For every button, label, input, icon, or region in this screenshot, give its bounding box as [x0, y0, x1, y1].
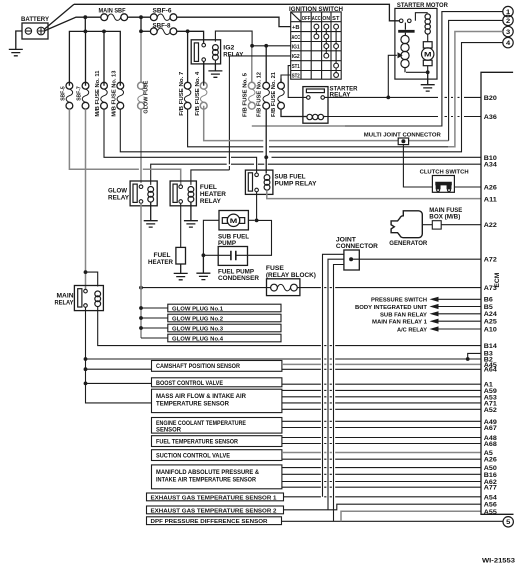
multi joint connector — [398, 138, 408, 145]
ground (fuel heater) — [174, 264, 188, 280]
svg-text:+B: +B — [292, 25, 300, 31]
ignition switch contacts — [314, 24, 339, 77]
svg-text:M/B FUSE No. 11: M/B FUSE No. 11 — [95, 71, 101, 117]
ground (IG2 relay) — [208, 64, 222, 77]
wire SFPR contact to sub fuel pump — [256, 192, 258, 219]
svg-text:3: 3 — [506, 29, 511, 36]
svg-text:A34: A34 — [484, 162, 498, 169]
wire condenser branch — [248, 220, 272, 255]
fuse F/B FUSE No. 21 — [278, 79, 285, 110]
wire generator to main fuse box — [422, 224, 432, 226]
svg-text:ST: ST — [332, 16, 339, 22]
svg-text:A77: A77 — [484, 485, 498, 492]
wire power to boost valve — [86, 382, 152, 384]
node F/B fuse No.7 feed — [186, 29, 190, 33]
fuse F/B FUSE No. 12 — [263, 47, 270, 109]
wire clutch switch to ECM A26 — [454, 186, 481, 188]
fuse F/B FUSE No. 7 — [184, 31, 191, 109]
resistor fuel heater — [176, 203, 186, 264]
svg-text:HEATER: HEATER — [148, 259, 174, 266]
svg-text:A54: A54 — [484, 494, 498, 501]
svg-text:INTAKE AIR TEMPERATURE SENSOR: INTAKE AIR TEMPERATURE SENSOR — [156, 478, 257, 484]
svg-text:GLOW FUSE: GLOW FUSE — [143, 80, 149, 113]
node glow plug 3 — [139, 326, 143, 330]
wire IG1 row feed — [252, 45, 291, 47]
svg-text:2: 2 — [506, 18, 511, 25]
svg-text:RELAY: RELAY — [200, 198, 222, 205]
ground (starter motor) — [421, 72, 435, 91]
svg-text:4: 4 — [506, 40, 511, 47]
exhaust gas temperature sensor 2 — [147, 506, 284, 514]
svg-text:CLUTCH SWITCH: CLUTCH SWITCH — [420, 170, 469, 176]
node B10 F/B12 — [264, 155, 268, 159]
wire to glow plug 2 — [141, 317, 168, 319]
wire battery to ground — [16, 31, 22, 49]
wire to glow plug 4 — [141, 337, 168, 339]
wire MAF to ECM A52 — [282, 408, 481, 410]
wire FTS to ECM A68 — [282, 443, 481, 445]
svg-text:A26: A26 — [484, 184, 498, 191]
wire camshaft to ECM A64 — [282, 368, 481, 370]
manifold absolute pressure sensor — [152, 465, 282, 489]
wire F/B5 to circle 1 — [252, 125, 345, 127]
svg-text:F/B FUSE No. 21: F/B FUSE No. 21 — [271, 72, 277, 117]
svg-text:IG2: IG2 — [292, 54, 300, 60]
node sub fuel pump feed — [255, 219, 259, 223]
ground (sub fuel pump) — [196, 255, 210, 279]
svg-text:CONDENSER: CONDENSER — [218, 275, 260, 282]
node fuse row a — [84, 30, 88, 34]
svg-text:SENSOR: SENSOR — [156, 428, 182, 434]
svg-text:F/B FUSE No. 12: F/B FUSE No. 12 — [256, 72, 262, 117]
svg-text:RELAY: RELAY — [108, 194, 130, 201]
svg-text:A56: A56 — [484, 502, 498, 509]
svg-text:DPF PRESSURE DIFFERENCE SENSOR: DPF PRESSURE DIFFERENCE SENSOR — [151, 519, 269, 525]
node starter motor ground — [426, 70, 430, 74]
ignition switch table — [291, 12, 342, 79]
svg-text:EXHAUST GAS TEMPERATURE SENSOR: EXHAUST GAS TEMPERATURE SENSOR 2 — [151, 508, 277, 514]
fuse SBF-6 — [150, 14, 176, 21]
wire starter relay contact to B20 — [325, 96, 439, 98]
svg-text:PUMP RELAY: PUMP RELAY — [275, 180, 318, 187]
camshaft position sensor — [152, 361, 282, 372]
node condenser ground — [202, 253, 206, 257]
node glow plug 1 — [139, 306, 143, 310]
svg-text:A68: A68 — [484, 441, 498, 448]
svg-text:A/C RELAY: A/C RELAY — [397, 328, 427, 334]
svg-text:B5: B5 — [484, 304, 494, 311]
svg-text:A11: A11 — [484, 196, 498, 203]
mass air flow sensor — [152, 389, 282, 412]
node power boost — [84, 382, 88, 386]
wire IG2 row to down column — [229, 56, 290, 164]
wire battery plus to MAIN SBF — [44, 17, 101, 31]
svg-text:BOOST CONTROL VALVE: BOOST CONTROL VALVE — [156, 381, 223, 387]
svg-text:A25: A25 — [484, 319, 498, 326]
svg-text:GENERATOR: GENERATOR — [389, 240, 428, 247]
svg-text:MAIN SBF: MAIN SBF — [99, 8, 126, 15]
node glow column fuse — [139, 286, 143, 290]
svg-text:ST2: ST2 — [292, 73, 300, 79]
svg-text:SBF-6: SBF-6 — [153, 7, 173, 14]
svg-text:A73: A73 — [484, 285, 498, 292]
svg-text:GLOW PLUG No.4: GLOW PLUG No.4 — [172, 336, 224, 342]
svg-text:CAMSHAFT POSITION SENSOR: CAMSHAFT POSITION SENSOR — [156, 364, 241, 370]
wire JC ground riser 3 — [334, 265, 344, 522]
starter motor — [395, 8, 437, 79]
wire main sbf node down to fuse row — [84, 17, 86, 31]
wire glow output column — [140, 203, 142, 338]
node IG1-F/B12 — [264, 44, 268, 48]
relay glow — [130, 181, 157, 206]
wire MAP to ECM B16 — [282, 473, 481, 475]
node IG1-F/B5 — [250, 44, 254, 48]
svg-text:ACC: ACC — [292, 35, 301, 41]
joint connector — [344, 250, 359, 270]
fuse SBF-8 — [141, 28, 177, 35]
connector circle 1 — [503, 6, 513, 16]
boost control valve — [152, 378, 282, 387]
wire to starter solenoid — [388, 55, 397, 97]
wire joint connector to ECM A72 — [351, 258, 481, 260]
svg-text:B20: B20 — [484, 95, 498, 102]
svg-text:A26: A26 — [484, 457, 498, 464]
wire main relay output column — [86, 307, 152, 403]
capacitor fuel pump condenser — [218, 247, 247, 266]
fuse GLOW FUSE — [138, 33, 145, 183]
wire JC ground riser 1 — [323, 254, 344, 496]
svg-text:F/B FUSE No. 5: F/B FUSE No. 5 — [242, 73, 248, 117]
svg-text:A72: A72 — [484, 257, 498, 264]
exhaust gas temperature sensor 1 — [147, 493, 284, 501]
wire IG2 to fuel heater relay coil — [191, 170, 230, 185]
wire sbf6 node down to SBF-8 — [140, 17, 142, 31]
svg-text:MASS AIR FLOW & INTAKE AIR: MASS AIR FLOW & INTAKE AIR — [156, 394, 247, 400]
svg-text:A64: A64 — [484, 367, 498, 374]
svg-text:EXHAUST GAS TEMPERATURE SENSOR: EXHAUST GAS TEMPERATURE SENSOR 1 — [151, 495, 278, 501]
node starter solenoid branch — [386, 96, 390, 100]
svg-text:RELAY: RELAY — [223, 52, 243, 59]
fuse M/B FUSE No. 13 — [117, 82, 124, 109]
wire M/B13 to circle 4 — [120, 43, 503, 152]
wire fuse row header — [69, 31, 120, 85]
svg-text:5: 5 — [506, 519, 511, 526]
fuse M/B FUSE No. 11 — [101, 82, 108, 109]
wire SFPR coil to ECM A11 — [267, 190, 481, 198]
svg-text:OFF: OFF — [302, 16, 311, 22]
wire top line to starter motor B — [74, 4, 400, 21]
fuel temperature sensor — [152, 436, 282, 447]
battery — [22, 23, 48, 39]
wire boost to ECM A1 — [282, 383, 481, 385]
svg-text:M: M — [230, 218, 238, 225]
ECM box — [481, 72, 514, 514]
wire SCV to ECM A5 — [282, 452, 481, 454]
wire F/B7 to circle 3 — [188, 109, 448, 147]
node power b2 — [84, 357, 88, 361]
svg-text:IG2: IG2 — [223, 44, 234, 51]
svg-text:TEMPERATURE SENSOR: TEMPERATURE SENSOR — [156, 402, 230, 408]
wire SBF-7 to main relay — [85, 109, 87, 289]
ground (fuel heater relay) — [184, 202, 198, 227]
relay starter — [303, 87, 328, 124]
svg-text:RELAY: RELAY — [55, 300, 75, 307]
svg-text:SUB FAN RELAY: SUB FAN RELAY — [380, 312, 427, 318]
glow plug No.3 — [168, 324, 281, 332]
wire MAF to ECM A71 — [282, 402, 481, 404]
wire node to condenser — [203, 254, 218, 256]
node main sbf junction — [83, 15, 87, 19]
wire IG1 to IG2 relay coil — [215, 31, 252, 46]
relay IG2 — [191, 40, 220, 86]
svg-text:F/B FUSE No. 7: F/B FUSE No. 7 — [179, 72, 185, 116]
svg-text:ON: ON — [322, 16, 330, 22]
svg-text:(RELAY BLOCK): (RELAY BLOCK) — [266, 272, 316, 279]
wire starter relay coil to ECM A36 — [325, 116, 439, 118]
wire fuse relay block to ECM A73 — [297, 287, 481, 289]
node B3 jog — [466, 357, 470, 361]
wire camshaft to ECM A45 — [282, 363, 481, 365]
connector circle 4 — [503, 37, 513, 47]
svg-text:WI-21553: WI-21553 — [482, 558, 515, 565]
svg-text:SUCTION CONTROL VALVE: SUCTION CONTROL VALVE — [156, 453, 230, 459]
node fuse row b — [102, 30, 106, 34]
wire MAF to ECM A59 — [282, 389, 481, 391]
wire battery plus to top line — [44, 4, 74, 29]
wire EGT2 to ECM A56 — [284, 504, 482, 510]
wire MAF to ECM A53 — [282, 396, 481, 398]
wire main fuse box to ECM A22 — [441, 224, 481, 226]
wire EGT1 to ECM A54 — [284, 496, 482, 498]
wire ECT to ECM A67 — [282, 427, 481, 429]
clutch switch — [432, 176, 454, 193]
svg-text:A55: A55 — [484, 509, 498, 516]
wire to glow plug 3 — [141, 327, 168, 329]
wire DPF to circle 5 — [282, 520, 503, 522]
ground (glow relay) — [144, 202, 158, 227]
sub fuel pump — [203, 211, 254, 255]
svg-text:A52: A52 — [484, 407, 498, 414]
node glow plug 2 — [139, 316, 143, 320]
svg-text:M: M — [424, 52, 432, 59]
svg-text:SBF-8: SBF-8 — [153, 23, 172, 30]
svg-text:B6: B6 — [484, 297, 494, 304]
wire ECT to ECM A49 — [282, 420, 481, 422]
svg-text:IG1: IG1 — [292, 45, 300, 51]
relay main — [74, 286, 103, 311]
starter solenoid arrow — [398, 52, 403, 58]
svg-text:PRESSURE SWITCH: PRESSURE SWITCH — [371, 298, 427, 304]
svg-text:A67: A67 — [484, 425, 498, 432]
svg-text:BODY INTEGRATED UNIT: BODY INTEGRATED UNIT — [355, 305, 428, 311]
wire JC ground riser 2 — [328, 259, 344, 510]
wire MAP to ECM A62 — [282, 481, 481, 483]
svg-text:B14: B14 — [484, 343, 498, 350]
node sbf8 feed — [139, 29, 143, 33]
wire SBF-5 to fuel heater relay contact — [69, 109, 180, 185]
svg-text:ST1: ST1 — [292, 64, 300, 70]
wire F/B12 fuse to SFPR coil — [265, 109, 267, 174]
engine coolant temperature sensor — [152, 418, 282, 434]
generator — [391, 211, 422, 238]
wire F/B21 to starter relay coil — [281, 109, 306, 116]
wire SBF-6 to ignition +B — [177, 17, 291, 26]
svg-text:F/B FUSE No. 4: F/B FUSE No. 4 — [195, 71, 201, 116]
svg-text:A24: A24 — [484, 311, 498, 318]
wire power to camshaft sensor — [86, 368, 152, 370]
wire MAP to ECM A50 — [282, 467, 481, 469]
wire DPF tap to ECM A55 — [341, 511, 481, 521]
glow plug No.1 — [168, 304, 281, 312]
svg-text:BOX (M/B): BOX (M/B) — [429, 214, 460, 221]
svg-text:ACC: ACC — [312, 16, 321, 22]
svg-text:CONNECTOR: CONNECTOR — [336, 243, 379, 250]
wire glow column to fuse relay block — [141, 287, 271, 289]
wire glow relay coil to ECM A34 — [151, 164, 481, 185]
relay fuel heater — [170, 181, 196, 206]
svg-text:SBF-5: SBF-5 — [60, 86, 66, 101]
dpf pressure difference sensor — [147, 517, 282, 525]
fuse F/B FUSE No. 5 — [248, 47, 255, 109]
svg-text:A10: A10 — [484, 326, 498, 333]
fuse F/B FUSE No. 4 — [200, 62, 207, 110]
wire M/B11 to sub fuel pump relay contact — [104, 109, 257, 172]
relay sub fuel pump — [245, 170, 273, 194]
svg-text:GLOW PLUG No.1: GLOW PLUG No.1 — [172, 306, 224, 312]
svg-text:FUEL TEMPERATURE SENSOR: FUEL TEMPERATURE SENSOR — [156, 439, 239, 445]
suction control valve — [152, 450, 282, 461]
fuse SBF-5 — [66, 82, 73, 109]
ground (battery) — [9, 49, 23, 55]
wire SCV to ECM A26 — [282, 458, 481, 460]
wire to glow plug 1 — [141, 307, 168, 309]
svg-text:BATTERY: BATTERY — [21, 16, 49, 23]
wire FTS to ECM A48 — [282, 437, 481, 439]
wire main relay coil feed — [86, 272, 98, 286]
wire MJC to clutch switch — [403, 145, 432, 187]
glow plug No.4 — [168, 334, 281, 342]
svg-text:A36: A36 — [484, 114, 498, 121]
svg-text:MANIFOLD ABSOLUTE PRESSURE &: MANIFOLD ABSOLUTE PRESSURE & — [156, 470, 260, 476]
svg-text:SBF-7: SBF-7 — [77, 86, 83, 101]
node sbf6 feed — [139, 15, 143, 19]
fuse relay block — [267, 279, 300, 296]
wire main relay coil to ECM B14 — [98, 307, 481, 346]
connector circle 3 — [503, 26, 513, 36]
svg-text:A22: A22 — [484, 222, 498, 229]
wire SBF-8 to IG2 relay contact — [177, 31, 204, 43]
wire MAIN SBF out to SBF-6 — [128, 16, 151, 18]
svg-text:M/B FUSE No. 13: M/B FUSE No. 13 — [112, 71, 118, 117]
glow plug No.2 — [168, 314, 281, 322]
svg-text:ENGINE COOLANT TEMPERATURE: ENGINE COOLANT TEMPERATURE — [156, 421, 246, 427]
fuse main fuse box — [432, 221, 441, 229]
fuse SBF-7 — [82, 82, 89, 109]
fuse MAIN SBF — [101, 14, 128, 21]
svg-text:MAIN FAN RELAY 1: MAIN FAN RELAY 1 — [372, 320, 427, 326]
node main relay feed — [84, 270, 88, 274]
svg-text:GLOW PLUG No.2: GLOW PLUG No.2 — [172, 316, 223, 322]
wire ST2 row — [281, 75, 291, 82]
wire F/B12 node to ECM B10 — [266, 156, 481, 158]
wire F/B4 via MJC to circle 2 — [204, 106, 449, 141]
connector circle 5 — [503, 517, 513, 527]
connector circle 2 — [503, 15, 513, 25]
wire MAP to ECM A77 — [282, 486, 481, 488]
wire ST1 row — [288, 66, 306, 98]
wire power to ECM B2 B3 — [86, 353, 482, 359]
node power cam — [84, 367, 88, 371]
wire IG2 column lower — [228, 166, 230, 170]
svg-text:B16: B16 — [484, 472, 498, 479]
svg-text:GLOW PLUG No.3: GLOW PLUG No.3 — [172, 326, 224, 332]
